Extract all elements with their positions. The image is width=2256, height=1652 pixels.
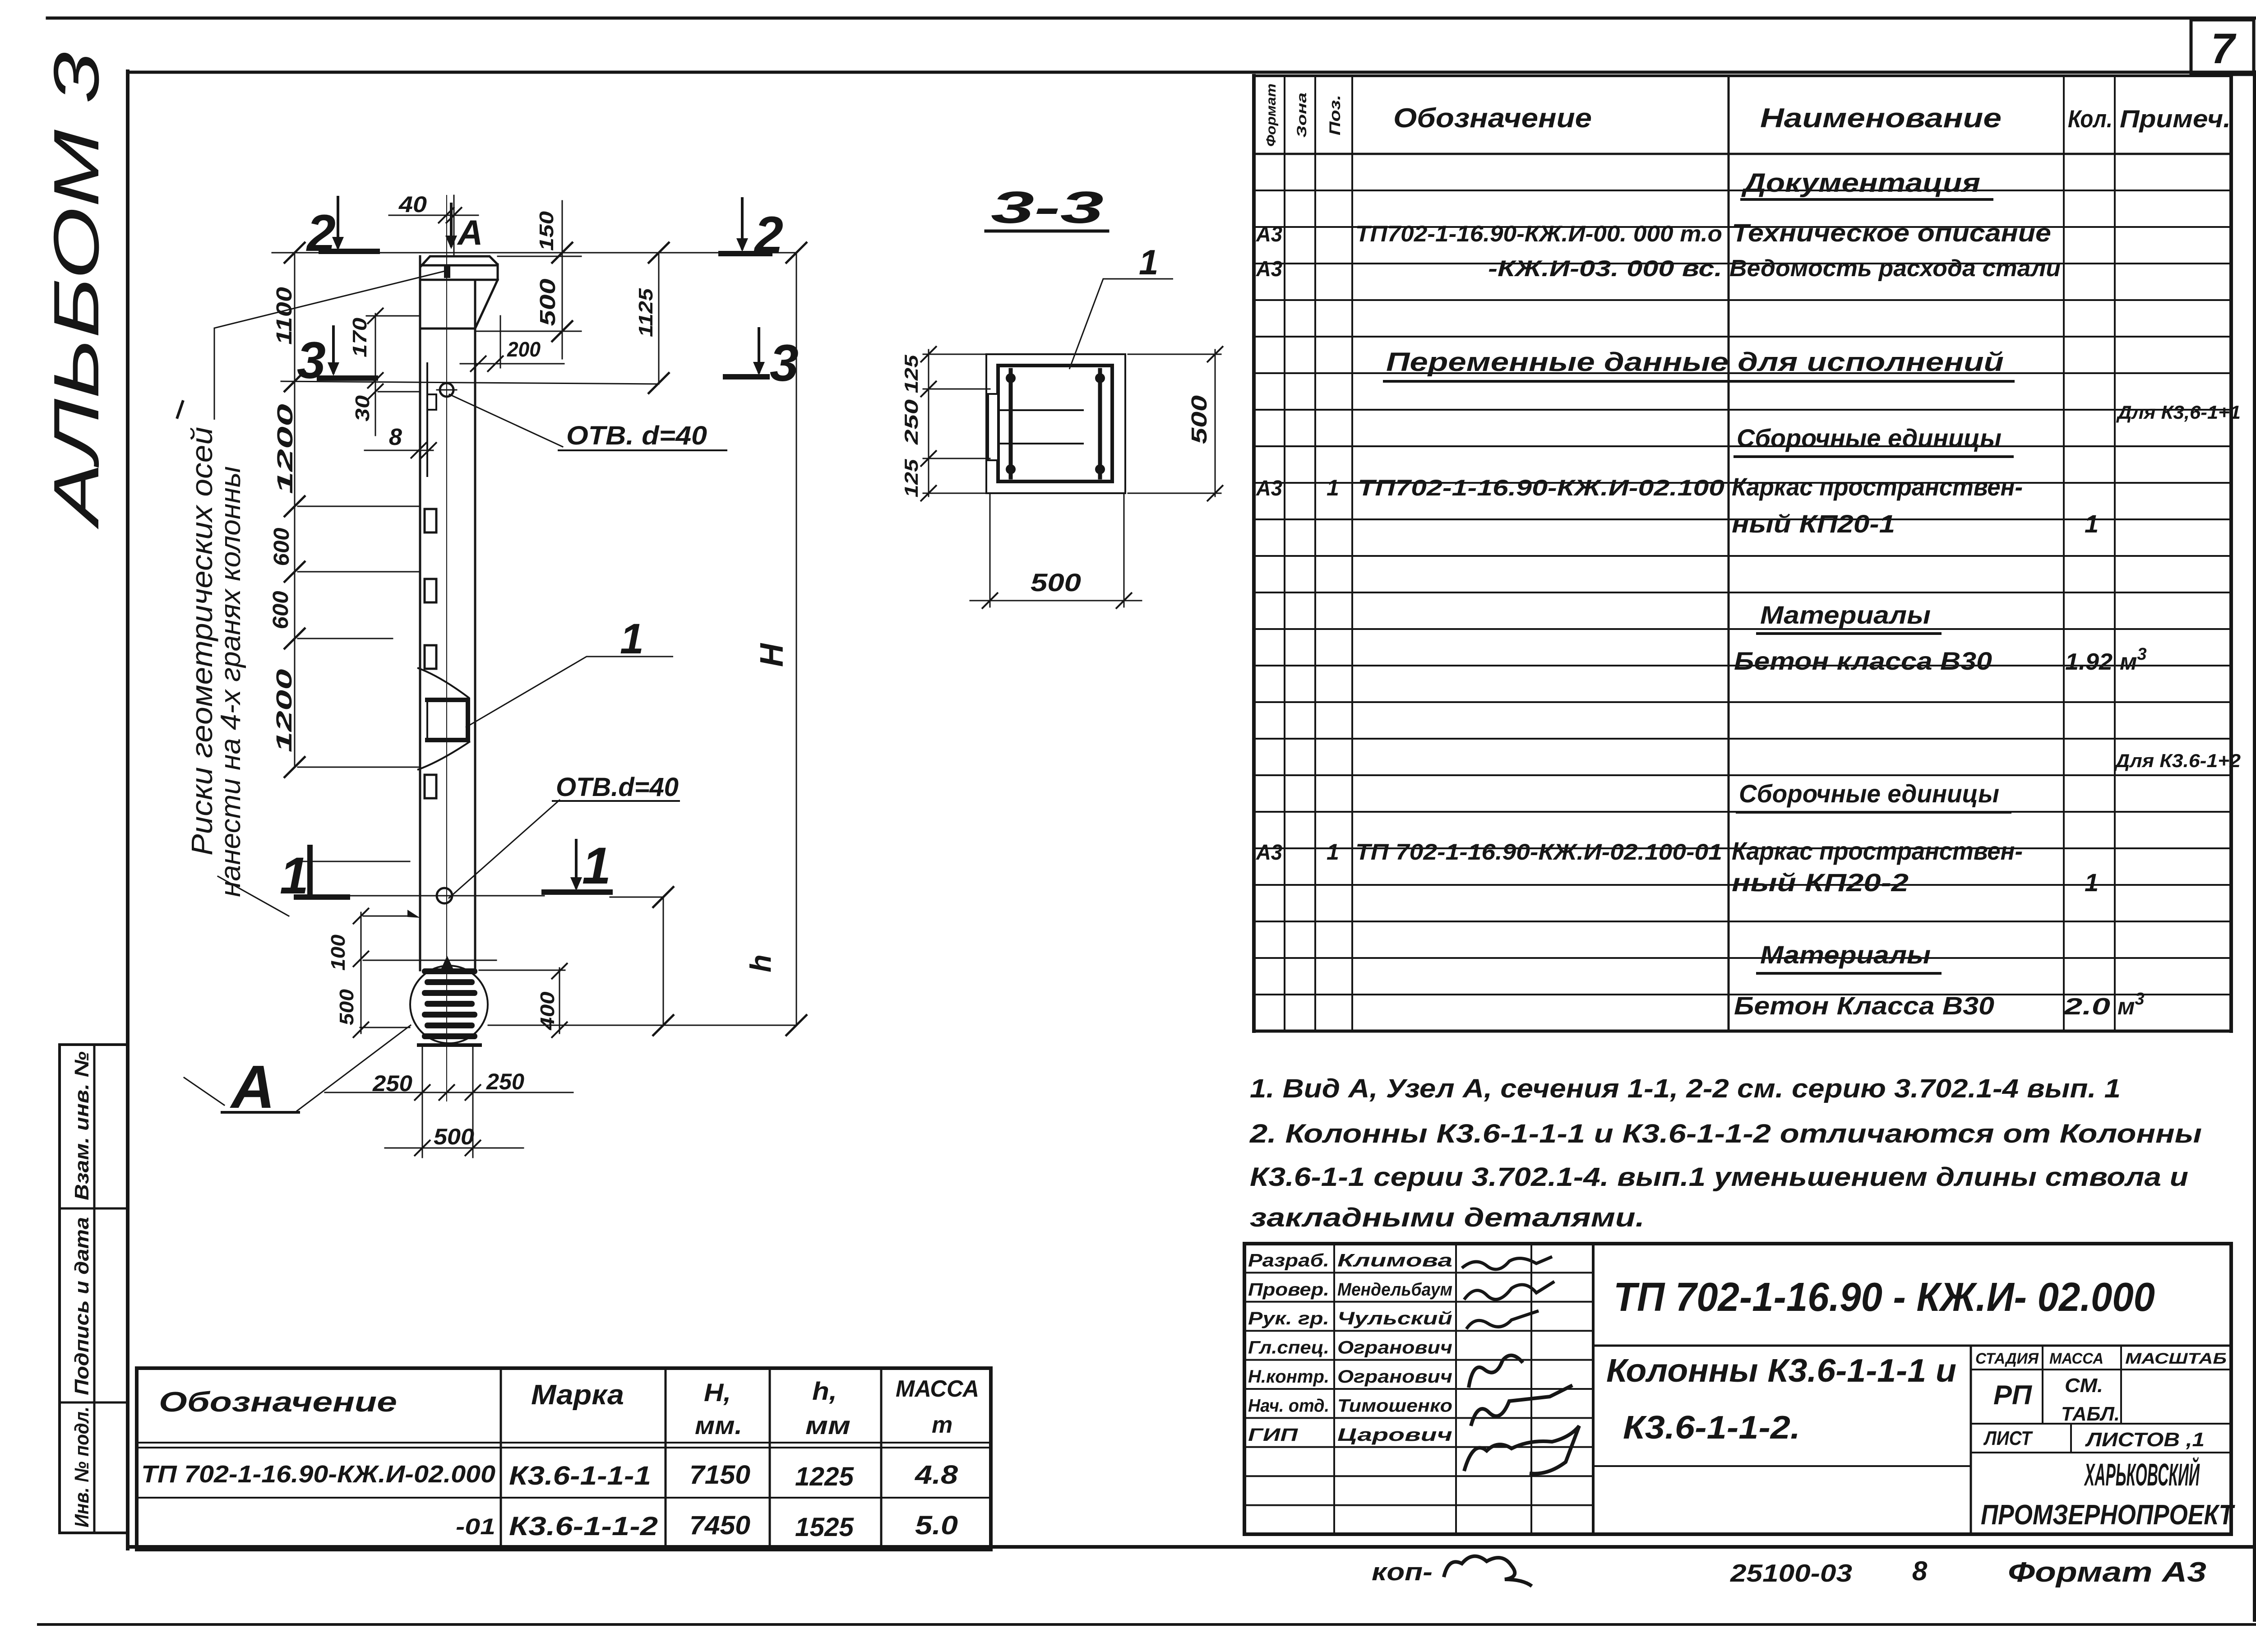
svg-text:1.92: 1.92: [2065, 649, 2113, 675]
svg-text:К3.6-1-1-2.: К3.6-1-1-2.: [1623, 1410, 1800, 1446]
svg-text:ОТВ.d=40: ОТВ.d=40: [556, 773, 679, 802]
svg-text:250: 250: [486, 1069, 524, 1094]
svg-text:h,: h,: [812, 1377, 837, 1405]
svg-text:1: 1: [582, 837, 611, 895]
svg-text:1: 1: [2085, 868, 2099, 897]
svg-text:Колонны К3.6-1-1-1 и: Колонны К3.6-1-1-1 и: [1606, 1353, 1956, 1389]
svg-text:Материалы: Материалы: [1760, 601, 1931, 629]
svg-text:А3: А3: [1256, 257, 1282, 281]
svg-text:400: 400: [536, 991, 559, 1031]
svg-text:3: 3: [770, 334, 799, 392]
svg-text:АЛЬБОМ 3: АЛЬБОМ 3: [41, 52, 112, 529]
svg-text:ТП702-1-16.90-КЖ.И-00. 000 т.о: ТП702-1-16.90-КЖ.И-00. 000 т.о: [1355, 221, 1722, 246]
svg-text:25100-03: 25100-03: [1730, 1559, 1852, 1587]
svg-text:4.8: 4.8: [915, 1460, 958, 1490]
svg-text:Огранович: Огранович: [1337, 1338, 1452, 1358]
svg-text:1100: 1100: [273, 287, 296, 345]
svg-text:коп-: коп-: [1372, 1558, 1433, 1586]
svg-text:Н.контр.: Н.контр.: [1248, 1367, 1329, 1387]
svg-text:500: 500: [1031, 568, 1081, 597]
svg-text:Обозначение: Обозначение: [1393, 103, 1592, 133]
svg-text:Документация: Документация: [1741, 168, 1980, 198]
svg-text:250: 250: [372, 1071, 412, 1096]
svg-text:К3.6-1-1 серии 3.702.1-4. вып: К3.6-1-1 серии 3.702.1-4. вып.1 уменьшен…: [1250, 1162, 2188, 1192]
svg-text:Рук. гр.: Рук. гр.: [1248, 1309, 1329, 1328]
svg-text:Тимошенко: Тимошенко: [1337, 1396, 1452, 1416]
svg-text:ГИП: ГИП: [1248, 1425, 1299, 1445]
svg-text:5.0: 5.0: [915, 1511, 958, 1540]
svg-text:Гл.спец.: Гл.спец.: [1248, 1338, 1329, 1358]
svg-text:СМ.: СМ.: [2065, 1374, 2103, 1397]
svg-text:1225: 1225: [795, 1462, 854, 1491]
svg-text:Н: Н: [754, 643, 790, 667]
svg-text:125: 125: [901, 355, 922, 393]
svg-text:Климова: Климова: [1337, 1250, 1452, 1270]
svg-text:3: 3: [297, 332, 326, 389]
svg-text:Формат: Формат: [1264, 83, 1279, 147]
svg-text:А3: А3: [1256, 222, 1282, 246]
svg-text:Разраб.: Разраб.: [1248, 1250, 1329, 1270]
svg-text:Риски геометрических осей: Риски геометрических осей: [185, 427, 218, 856]
svg-text:А: А: [230, 1053, 275, 1121]
svg-text:А3: А3: [1256, 477, 1282, 500]
svg-text:Провер.: Провер.: [1248, 1280, 1329, 1300]
svg-text:ОТВ. d=40: ОТВ. d=40: [566, 421, 707, 450]
svg-text:Сборочные единицы: Сборочные единицы: [1739, 779, 1999, 808]
svg-text:Кол.: Кол.: [2068, 105, 2113, 133]
svg-text:-01: -01: [456, 1514, 495, 1539]
svg-text:Н,: Н,: [704, 1378, 731, 1407]
svg-text:600: 600: [269, 591, 293, 629]
svg-text:1. Вид А, Узел А, сечения 1-1,: 1. Вид А, Узел А, сечения 1-1, 2-2 см. с…: [1250, 1074, 2121, 1103]
svg-text:ЛИСТОВ ,1: ЛИСТОВ ,1: [2085, 1429, 2205, 1451]
svg-text:мм: мм: [805, 1411, 851, 1439]
svg-text:МАСШТАБ: МАСШТАБ: [2125, 1350, 2227, 1367]
svg-text:-КЖ.И-03. 000 вс.: -КЖ.И-03. 000 вс.: [1488, 256, 1722, 281]
svg-text:ТП702-1-16.90-КЖ.И-02.100: ТП702-1-16.90-КЖ.И-02.100: [1358, 475, 1724, 500]
svg-text:150: 150: [536, 211, 558, 251]
svg-text:Марка: Марка: [531, 1379, 624, 1411]
svg-text:Подпись и дата: Подпись и дата: [71, 1217, 93, 1395]
svg-text:Зона: Зона: [1294, 93, 1309, 138]
svg-text:РП: РП: [1993, 1380, 2033, 1410]
svg-text:Техническое описание: Техническое описание: [1732, 218, 2051, 247]
svg-text:200: 200: [507, 338, 541, 361]
svg-text:А: А: [457, 213, 483, 252]
svg-text:ХАРЬКОВСКИЙ: ХАРЬКОВСКИЙ: [2084, 1456, 2200, 1492]
svg-text:К3.6-1-1-1: К3.6-1-1-1: [509, 1461, 651, 1490]
svg-text:h: h: [744, 954, 777, 972]
svg-text:Наименование: Наименование: [1760, 103, 2002, 133]
svg-text:1525: 1525: [795, 1513, 854, 1542]
svg-text:Для К3,6-1+1: Для К3,6-1+1: [2116, 402, 2241, 423]
svg-text:ЛИСТ: ЛИСТ: [1983, 1427, 2033, 1449]
svg-text:600: 600: [270, 528, 294, 566]
svg-text:Мендельбаум: Мендельбаум: [1337, 1280, 1452, 1300]
svg-text:ный КП20-1: ный КП20-1: [1732, 509, 1895, 538]
svg-text:125: 125: [901, 459, 922, 498]
svg-text:7150: 7150: [689, 1460, 750, 1490]
svg-text:500: 500: [434, 1124, 474, 1149]
svg-text:СТАДИЯ: СТАДИЯ: [1975, 1350, 2039, 1367]
svg-text:Каркас пространствен-: Каркас пространствен-: [1732, 837, 2023, 865]
svg-text:Бетон класса В30: Бетон класса В30: [1734, 647, 1992, 675]
svg-text:закладными деталями.: закладными деталями.: [1250, 1203, 1645, 1232]
svg-text:Переменные данные для исполнен: Переменные данные для исполнений: [1386, 347, 2004, 377]
svg-text:170: 170: [349, 317, 371, 357]
svg-text:100: 100: [327, 934, 349, 971]
svg-text:нанести на 4-х гранях коло: нанести на 4-х гранях колонны: [215, 466, 246, 897]
svg-text:ный КП20-2: ный КП20-2: [1732, 868, 1909, 897]
svg-text:Поз.: Поз.: [1327, 95, 1344, 135]
svg-text:1200: 1200: [273, 669, 296, 753]
svg-text:К3.6-1-1-2: К3.6-1-1-2: [509, 1512, 658, 1541]
svg-text:ТП 702-1-16.90 - КЖ.И- 02.000: ТП 702-1-16.90 - КЖ.И- 02.000: [1613, 1275, 2155, 1320]
svg-text:Бетон Класса В30: Бетон Класса В30: [1734, 991, 1994, 1020]
svg-text:2: 2: [754, 206, 783, 264]
svg-text:Обозначение: Обозначение: [159, 1387, 397, 1418]
svg-text:А3: А3: [1256, 841, 1282, 865]
svg-text:500: 500: [1188, 395, 1211, 444]
svg-text:2. Колонны К3.6-1-1-1 и К3.6-: 2. Колонны К3.6-1-1-1 и К3.6-1-1-2 отлич…: [1249, 1119, 2202, 1148]
svg-text:500: 500: [336, 989, 358, 1025]
svg-text:40: 40: [398, 192, 427, 217]
svg-text:Каркас пространствен-: Каркас пространствен-: [1732, 472, 2023, 501]
svg-text:МАССА: МАССА: [2049, 1350, 2103, 1367]
svg-text:Взам. инв. №: Взам. инв. №: [71, 1051, 93, 1200]
svg-text:250: 250: [901, 399, 922, 445]
svg-text:8: 8: [1912, 1556, 1928, 1586]
svg-text:Ведомость расхода стали: Ведомость расхода стали: [1729, 255, 2061, 282]
svg-text:1125: 1125: [635, 288, 657, 337]
svg-text:мм.: мм.: [695, 1411, 742, 1439]
svg-text:Для К3.6-1+2: Для К3.6-1+2: [2114, 750, 2241, 771]
svg-text:7: 7: [2211, 25, 2237, 73]
svg-text:500: 500: [536, 278, 560, 326]
svg-text:Царович: Царович: [1337, 1425, 1452, 1445]
svg-text:Материалы: Материалы: [1760, 940, 1931, 969]
svg-text:Инв. № подл.: Инв. № подл.: [71, 1407, 93, 1527]
svg-text:1: 1: [1327, 839, 1339, 865]
svg-text:2.0: 2.0: [2063, 994, 2111, 1020]
svg-text:1: 1: [620, 615, 644, 663]
svg-text:Огранович: Огранович: [1337, 1367, 1452, 1387]
svg-text:30: 30: [351, 395, 374, 421]
svg-text:2: 2: [306, 204, 336, 262]
svg-text:ТП 702-1-16.90-КЖ.И-02.000: ТП 702-1-16.90-КЖ.И-02.000: [141, 1461, 495, 1488]
svg-text:Примеч.: Примеч.: [2120, 105, 2231, 133]
svg-text:7450: 7450: [689, 1511, 750, 1540]
svg-text:8: 8: [389, 424, 402, 450]
svg-text:Сборочные единицы: Сборочные единицы: [1737, 424, 2002, 452]
svg-text:ТАБЛ.: ТАБЛ.: [2061, 1403, 2120, 1425]
svg-text:ПРОМЗЕРНОПРОЕКТ: ПРОМЗЕРНОПРОЕКТ: [1981, 1499, 2235, 1531]
svg-text:1: 1: [280, 847, 309, 905]
svg-text:1: 1: [2085, 509, 2099, 538]
svg-text:Чульский: Чульский: [1337, 1309, 1452, 1328]
svg-text:3-3: 3-3: [991, 182, 1104, 233]
svg-text:Формат А3: Формат А3: [2008, 1557, 2206, 1588]
svg-text:МАССА: МАССА: [896, 1376, 979, 1402]
svg-text:1: 1: [1139, 242, 1158, 282]
svg-text:1: 1: [1327, 475, 1339, 500]
svg-text:1200: 1200: [273, 403, 297, 494]
svg-text:т: т: [932, 1412, 952, 1438]
svg-text:ТП 702-1-16.90-КЖ.И-02.100-01: ТП 702-1-16.90-КЖ.И-02.100-01: [1355, 839, 1722, 865]
svg-text:Нач. отд.: Нач. отд.: [1248, 1396, 1329, 1416]
